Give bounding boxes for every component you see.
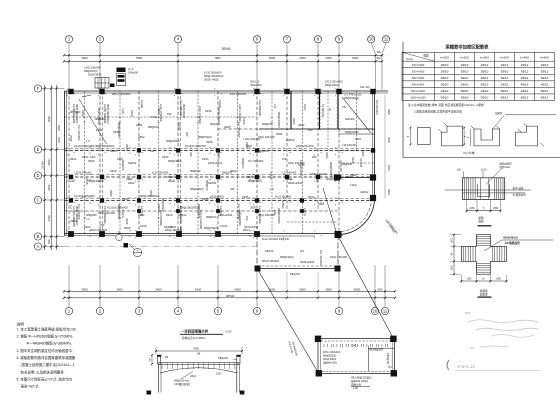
beam column axis 2 [99,91,101,234]
svg-text:3400: 3400 [155,287,162,291]
svg-text:Φ8@100/200: Φ8@100/200 [277,112,281,128]
svg-text:30546: 30546 [226,294,235,298]
svg-text:30546: 30546 [222,47,231,51]
beam elevation right labels [513,186,527,197]
svg-text:2Φ14;3Φ16: 2Φ14;3Φ16 [88,73,102,77]
cross joint leader [484,236,553,252]
svg-text:≤600: ≤600 [466,278,472,281]
svg-text:Φ8@100: Φ8@100 [241,158,245,169]
svg-text:≤650: ≤650 [493,207,499,210]
svg-text:3Φ20: 3Φ20 [157,204,161,211]
columns annex bottom [255,266,341,272]
svg-text:XB;Φ8@200: XB;Φ8@200 [369,349,384,352]
svg-text:Φ—HRB400钢筋,fy=360MPa.: Φ—HRB400钢筋,fy=360MPa. [27,341,72,346]
svg-text:1:30: 1:30 [353,387,358,390]
axis A short dashed line [65,246,258,248]
svg-text:(200x400): (200x400) [250,83,262,87]
columns row F [68,89,375,94]
svg-text:≤600: ≤600 [451,237,454,243]
annotation texts above plan [84,66,370,90]
svg-text:XL1: XL1 [300,250,305,253]
svg-text:KL7 300x600: KL7 300x600 [319,250,323,266]
svg-text:2+4<1.12: 2+4<1.12 [457,364,475,369]
svg-text:3400: 3400 [234,287,241,291]
svg-text:N2Φ12: N2Φ12 [164,225,173,229]
svg-text:Φ8@150(2): Φ8@150(2) [280,255,294,259]
svg-text:4Φ20: 4Φ20 [179,226,183,233]
column right edge mid [371,148,375,152]
svg-text:3Φ12: 3Φ12 [541,76,549,80]
secondary beams horizontal [65,117,375,222]
svg-text:≤650: ≤650 [469,207,475,210]
micro labels scatter [69,109,369,233]
bottom dimension line segments [64,290,395,292]
svg-text:2Φ18: 2Φ18 [205,109,212,113]
svg-text:2Φ25: 2Φ25 [242,195,249,199]
svg-text:b=350: b=350 [500,56,509,60]
svg-text:2400: 2400 [47,184,51,191]
beam elevation stirrups dense right [494,178,503,200]
svg-text:3Φ18: 3Φ18 [136,124,143,127]
svg-text:2Φ 箍筋加密: 2Φ 箍筋加密 [505,241,520,245]
svg-text:LL-1: LL-1 [128,67,134,71]
svg-text:1800: 1800 [325,287,332,291]
svg-text:150: 150 [282,157,287,161]
svg-text:Φ8@200(2): Φ8@200(2) [182,104,186,118]
svg-text:ST 280x150: ST 280x150 [321,104,324,118]
svg-text:2Φ14: 2Φ14 [217,152,221,159]
svg-text:3000: 3000 [269,287,276,291]
left axis grid stems [42,89,65,247]
cross joint ties bottom arm [476,263,490,272]
cross joint caption [478,289,492,298]
svg-text:2Φ22: 2Φ22 [128,181,135,185]
svg-text:L11 240x400: L11 240x400 [282,172,297,175]
svg-text:(板厚h=100): (板厚h=100) [323,361,337,365]
beam row axis E [65,150,375,152]
svg-text:1.2: 1.2 [69,205,73,209]
svg-text:XB1 Φ8@200双向: XB1 Φ8@200双向 [351,376,372,380]
svg-text:结构标高H=2.980m: 结构标高H=2.980m [182,336,206,340]
svg-text:B h=100: B h=100 [359,158,362,168]
cross joint left dims [450,234,461,276]
svg-text:L9(2) 240x400: L9(2) 240x400 [296,144,314,148]
notes block [17,322,77,389]
svg-text:L8(1) 240x400: L8(1) 240x400 [330,255,347,259]
canopy section title [180,329,232,341]
svg-text:2Φ18; 4Φ20: 2Φ18; 4Φ20 [204,78,219,82]
svg-text:注:1.表中箍筋肢数·排布·间距 均应满足规范和11G101: 注:1.表中箍筋肢数·排布·间距 均应满足规范和11G101—1要求. [408,103,485,107]
svg-text:1Φ8@150: 1Φ8@150 [386,353,389,365]
svg-text:5Φ10: 5Φ10 [441,96,449,100]
svg-text:1.2: 1.2 [86,139,90,143]
hatched blob above plan [110,68,126,88]
svg-text:2Φ16+2Φ14: 2Φ16+2Φ14 [300,260,315,264]
svg-text:240: 240 [70,179,75,183]
svg-text:WKL5 300x500: WKL5 300x500 [90,229,108,232]
top axis bubbles [65,36,389,43]
svg-text:2Φ12: 2Φ12 [481,63,489,67]
svg-text:雨篷大样: 雨篷大样 [351,383,362,387]
svg-text:3Φ12: 3Φ12 [292,118,296,125]
svg-text:1. 本工程混凝土强度等级:梁板均为C30.: 1. 本工程混凝土强度等级:梁板均为C30. [17,326,77,331]
svg-text:4Φ20: 4Φ20 [224,125,231,129]
svg-text:2000: 2000 [325,56,332,60]
table notes [408,103,485,113]
top dimension ticks [63,54,383,62]
svg-text:WKL7: WKL7 [243,229,250,232]
svg-text:280x300: 280x300 [345,118,355,121]
svg-text:3Φ10: 3Φ10 [441,82,449,86]
svg-text:L4(1) 200x400: L4(1) 200x400 [84,66,101,70]
svg-text:≤50: ≤50 [457,168,462,171]
bottom dimension line overall [64,297,395,299]
svg-text:2Φ12: 2Φ12 [541,63,549,67]
room corner columns right section [334,174,376,180]
canopy plan interior walls [368,346,394,371]
right side rotated dims [385,95,391,198]
stamp handwriting [455,364,540,371]
beam elevation leader [486,161,513,184]
bottom segment dimension texts [81,272,383,299]
svg-text:L17(1): L17(1) [303,208,307,216]
svg-text:240: 240 [315,178,319,183]
svg-text:4Φ12: 4Φ12 [501,89,509,93]
svg-text:3Φ18: 3Φ18 [202,197,209,201]
svg-text:Φ8@100/200(2): Φ8@100/200(2) [106,104,110,123]
svg-text:2Φ14: 2Φ14 [166,213,173,217]
svg-text:3Φ10: 3Φ10 [461,69,469,73]
svg-text:b=200: b=200 [440,56,449,60]
svg-text:2Φ12: 2Φ12 [190,375,197,378]
svg-text:400<h≤500: 400<h≤500 [412,64,425,67]
svg-text:(混凝土结构施工图平法)11G101—1: (混凝土结构施工图平法)11G101—1 [21,362,75,367]
svg-text:梁筋: 梁筋 [478,216,484,220]
svg-text:2Φ25: 2Φ25 [245,142,249,149]
left axis bubbles [34,85,41,250]
canopy columns [159,365,240,393]
svg-text:L6: L6 [328,108,332,111]
svg-text:Φ8@200: Φ8@200 [86,213,97,217]
svg-text:2Φ20: 2Φ20 [70,219,77,223]
svg-text:1.2: 1.2 [82,195,86,199]
svg-text:11: 11 [384,37,389,42]
beam elevation top labels [457,168,487,178]
svg-text:加密区: 加密区 [495,111,503,115]
canopy beam slab [158,363,240,365]
svg-text:4Φ10: 4Φ10 [481,89,489,93]
svg-text:2Φ18: 2Φ18 [110,149,117,153]
svg-text:h=100: h=100 [220,224,228,228]
svg-text:3Φ16: 3Φ16 [162,155,169,159]
svg-text:3Φ20: 3Φ20 [157,108,161,115]
beam row stair bottom y129 [218,128,375,130]
svg-text:KL5(3): KL5(3) [218,100,222,108]
svg-text:2Φ10: 2Φ10 [461,63,469,67]
svg-text:3Φ20: 3Φ20 [88,159,95,163]
svg-text:3Φ10: 3Φ10 [441,76,449,80]
svg-text:加密区: 加密区 [480,292,488,296]
svg-text:2Φ16+2Φ14: 2Φ16+2Φ14 [244,225,259,229]
svg-text:Φ8@200(2): Φ8@200(2) [161,198,165,212]
svg-text:150: 150 [245,216,249,221]
svg-text:3400: 3400 [116,287,123,291]
svg-text:5Φ10: 5Φ10 [461,96,469,100]
beam column axis 4 [177,91,179,234]
svg-text:L10(9) 240x400: L10(9) 240x400 [74,172,92,175]
svg-text:2Φ20: 2Φ20 [125,144,129,151]
svg-text:梁箍筋非加密区配筋表: 梁箍筋非加密区配筋表 [445,44,490,51]
svg-text:650<h≤800: 650<h≤800 [412,77,425,80]
svg-text:箍筋加密区: 箍筋加密区 [500,161,513,165]
beam labels right section [318,100,378,206]
svg-text:Φ8@200(2): Φ8@200(2) [345,130,359,134]
svg-text:200: 200 [100,223,105,227]
svg-text:Φ8@200: Φ8@200 [326,177,337,181]
svg-text:2Φ16+2Φ14: 2Φ16+2Φ14 [288,181,303,185]
svg-text:L8(1) 240x400: L8(1) 240x400 [258,213,275,217]
svg-text:L8(1) 240x400: L8(1) 240x400 [97,108,101,125]
svg-text:柱箍筋: 柱箍筋 [480,289,488,293]
svg-text:截面: 截面 [423,53,429,57]
svg-text:C20细石混凝土: C20细石混凝土 [174,382,192,386]
svg-text:2Φ16+2Φ14: 2Φ16+2Φ14 [218,213,233,217]
svg-text:KZ1 500x500: KZ1 500x500 [375,100,378,115]
svg-text:L8(1) 240x400: L8(1) 240x400 [258,135,275,139]
column arc corner [335,231,342,238]
top dimension line segments [64,60,382,62]
svg-text:Pxx大样: Pxx大样 [463,150,474,155]
svg-text:4Φ12: 4Φ12 [541,89,549,93]
canopy left parapet [157,355,161,364]
svg-text:≤100: ≤100 [481,168,487,171]
columns row B [68,231,260,237]
svg-text:2Φ22: 2Φ22 [84,225,91,229]
micro labels scatter 2 [77,108,365,266]
column arc top [370,195,376,201]
svg-text:920: 920 [377,51,382,54]
svg-text:有关说明; 以及相关说明要求.: 有关说明; 以及相关说明要求. [21,369,65,374]
svg-text:b=300: b=300 [480,56,489,60]
svg-text:KL7 300x600: KL7 300x600 [237,122,241,138]
beam elevation caption [478,216,492,226]
svg-text:h=100: h=100 [150,116,158,119]
svg-text:1-1: 1-1 [86,218,90,221]
svg-text:h(mm): h(mm) [406,58,413,61]
svg-text:1:100: 1:100 [225,330,232,334]
svg-text:h=100: h=100 [269,172,273,180]
svg-text:A: A [137,249,139,253]
stamp paren [447,360,449,370]
svg-text:KL8 300x600: KL8 300x600 [230,92,246,96]
columns row C [69,198,304,202]
column hook marks [67,89,343,238]
left dimension line inner [56,85,58,250]
svg-text:3Φ12: 3Φ12 [521,69,529,73]
svg-text:2Φ12: 2Φ12 [521,63,529,67]
svg-text:3Φ12: 3Φ12 [149,190,153,197]
svg-text:Φ8@100: Φ8@100 [258,149,269,153]
svg-text:N2Φ12: N2Φ12 [265,249,274,253]
cross joint outline [461,235,506,275]
svg-text:KL10 300x600: KL10 300x600 [204,71,222,75]
svg-text:2Φ22: 2Φ22 [138,135,145,139]
svg-text:3Φ16: 3Φ16 [125,218,129,225]
svg-text:3000: 3000 [299,56,306,60]
svg-text:Φ8@100/200: Φ8@100/200 [117,122,121,138]
svg-text:Φ8@200(2): Φ8@200(2) [190,187,204,191]
slab right edge [374,91,376,198]
svg-text:P.M: P.M [465,311,470,315]
table frame [403,42,560,158]
svg-text:Φ8@150(2): Φ8@150(2) [197,204,201,218]
svg-text:240: 240 [308,128,313,132]
canopy bent bar arc [160,368,238,373]
svg-text:Φ8@200: Φ8@200 [121,160,125,171]
svg-text:200: 200 [312,155,317,159]
svg-text:WKL2 300x500: WKL2 300x500 [112,92,131,96]
svg-text:2Φ12: 2Φ12 [308,195,315,199]
svg-text:TZ1: TZ1 [342,106,347,109]
svg-text:3Φ12: 3Φ12 [521,76,529,80]
svg-text:15146: 15146 [41,161,45,169]
svg-text:4Φ10: 4Φ10 [441,89,449,93]
svg-text:1000<h≤1200: 1000<h≤1200 [410,97,426,100]
svg-text:L19(1): L19(1) [350,184,357,187]
beam column axis 8 [317,91,319,211]
svg-text:2. 钢筋 Φ—HPB300钢筋,fy=270MPa: 2. 钢筋 Φ—HPB300钢筋,fy=270MPa [17,334,73,339]
svg-text:Φ8@150(2): Φ8@150(2) [204,226,218,230]
svg-text:L1(1): L1(1) [121,108,125,114]
svg-text:L8(1) 240x400: L8(1) 240x400 [98,211,115,215]
svg-text:N2Φ12: N2Φ12 [128,161,137,165]
svg-text:Φ8@150(2): Φ8@150(2) [168,159,182,163]
svg-text:500<h≤650: 500<h≤650 [412,70,425,73]
svg-text:2404: 2404 [57,137,61,143]
corner arc inner dashed [338,198,372,232]
columns row y211 [137,209,304,213]
svg-text:5Φ12: 5Φ12 [541,96,549,100]
svg-text:2Φ16: 2Φ16 [355,138,362,141]
svg-text:KL30 300x780: KL30 300x780 [152,172,169,175]
svg-text:b=400: b=400 [520,56,529,60]
svg-text:LT1: LT1 [273,104,277,109]
svg-text:N2Φ12: N2Φ12 [178,213,187,217]
svg-text:3000: 3000 [81,56,88,60]
top axis grid lines [69,43,386,90]
svg-text:2Φ16: 2Φ16 [276,132,283,136]
svg-text:2Φ22+2Φ20: 2Φ22+2Φ20 [210,196,224,199]
stirrup tick pairs on beams [83,117,273,236]
svg-text:2.箍筋直径及肢数,详见各梁平法标注值.: 2.箍筋直径及肢数,详见各梁平法标注值. [414,110,463,114]
beam column axis 6 [256,91,258,234]
svg-text:3596: 3596 [57,125,61,131]
svg-text:6000: 6000 [47,115,51,122]
svg-text:3400: 3400 [47,215,51,222]
stamp squiggle 2 [476,328,538,330]
svg-text:2Φ16+2Φ14: 2Φ16+2Φ14 [208,161,223,165]
svg-text:2Φ16: 2Φ16 [69,135,73,142]
section sketch 2 [439,123,467,146]
svg-text:≤600: ≤600 [451,265,454,271]
canopy right parapet [218,355,241,364]
section callout circle 1 [116,234,122,240]
svg-text:LT2 h=120: LT2 h=120 [339,160,342,172]
svg-text:KL7 300x600: KL7 300x600 [248,159,264,163]
svg-text:GZL 310: GZL 310 [360,86,370,89]
cross joint bottom dims [460,275,507,283]
svg-text:3Φ18: 3Φ18 [206,140,213,144]
svg-text:3Φ12: 3Φ12 [541,69,549,73]
columns row D [69,175,341,179]
svg-text:Φ8@100/200: Φ8@100/200 [277,208,281,224]
cross joint stirrups left wing [463,246,475,261]
canopy plan caption [351,376,372,391]
stamp squiggle 1 [468,320,538,323]
beam elevation inner U bar [478,184,490,196]
svg-text:KL7 300x600: KL7 300x600 [77,125,81,141]
svg-text:10: 10 [373,308,378,313]
svg-text:900<h≤1000: 900<h≤1000 [411,90,426,93]
canopy plan corner columns [315,336,397,377]
left dimension ticks [44,87,58,247]
svg-text:h=100: h=100 [166,175,174,179]
cross joint ties top arm [476,237,490,246]
svg-text:Φ8@100/200(2): Φ8@100/200(2) [204,74,223,78]
svg-text:2Φ10: 2Φ10 [441,63,449,67]
svg-text:2Φ20: 2Φ20 [122,197,129,201]
leader diagonal top-left bay [79,99,107,144]
svg-text:3400: 3400 [352,56,359,60]
svg-text:3Φ18: 3Φ18 [318,203,325,206]
section sketch 1 [407,127,430,146]
svg-text:4Φ12: 4Φ12 [521,89,529,93]
svg-text:b=450: b=450 [540,56,549,60]
svg-text:Φ8@150双向: Φ8@150双向 [344,96,360,100]
svg-text:FX.: FX. [470,346,475,350]
svg-text:1996: 1996 [387,189,391,195]
secondary beams vertical [85,91,357,234]
svg-text:≤600: ≤600 [496,278,502,281]
svg-text:L3(1) 240x500: L3(1) 240x500 [238,104,242,122]
beam row intermediate y211 [65,210,339,212]
svg-text:2400: 2400 [47,159,51,166]
svg-text:3596: 3596 [387,109,391,115]
bottom dimension ticks [63,290,396,299]
svg-text:2Φ22: 2Φ22 [350,173,357,177]
svg-text:4. 梁板配筋构造详见国家建筑标准图集: 4. 梁板配筋构造详见国家建筑标准图集 [17,355,76,360]
svg-text:4Φ10: 4Φ10 [461,89,469,93]
svg-text:板厚100 C30砼: 板厚100 C30砼 [351,379,368,383]
slab bottom edge right segment [257,233,336,235]
svg-text:3Φ10: 3Φ10 [501,69,509,73]
svg-text:1Φ8: 1Φ8 [216,373,221,376]
svg-text:L3(1) 240x500: L3(1) 240x500 [198,106,202,124]
svg-text:Φ8@150: Φ8@150 [210,123,221,126]
svg-text:G2Φ12: G2Φ12 [281,200,285,209]
beam column axis 7 [286,91,288,211]
svg-text:间距≤100: 间距≤100 [500,165,511,169]
canopy stirrup ticks [162,363,235,370]
svg-text:A: A [37,244,40,249]
svg-text:5000: 5000 [354,287,361,291]
svg-text:C: C [37,197,40,202]
beam labels middle band [74,144,362,199]
bottom axis bubbles [65,307,388,314]
slab bottom edge axis B [65,233,258,235]
svg-text:KZL3 300x600: KZL3 300x600 [325,80,343,84]
annex outline below axis B [256,234,258,269]
